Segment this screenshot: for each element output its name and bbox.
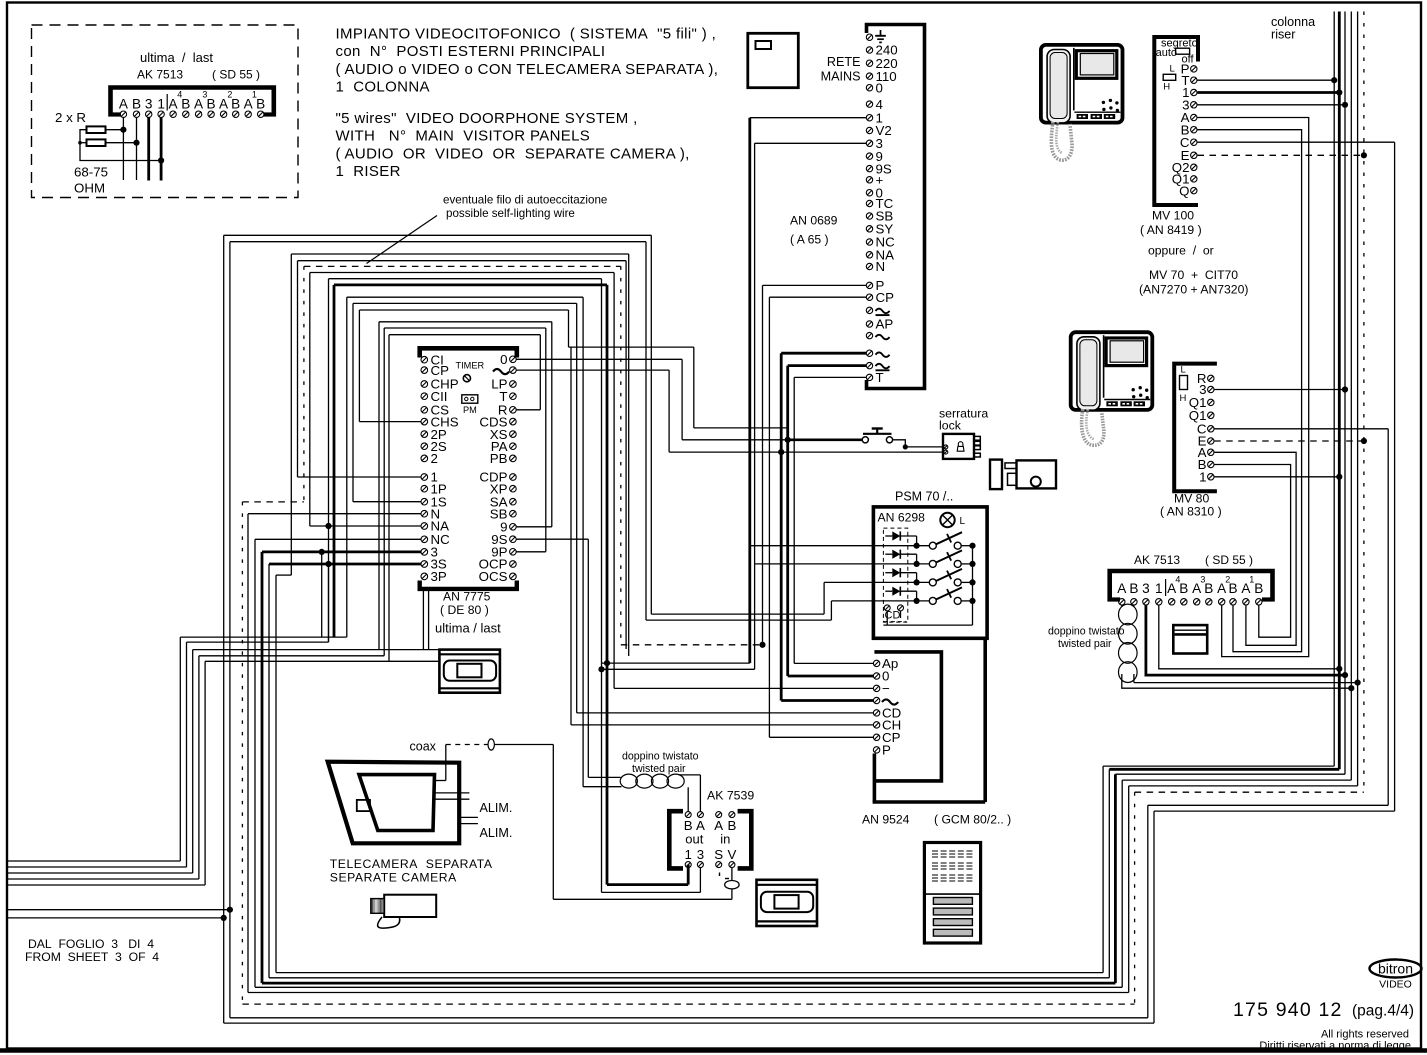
svg-text:3: 3 bbox=[697, 847, 704, 862]
svg-text:AN 6298: AN 6298 bbox=[878, 511, 926, 525]
riser pair down to floor module bbox=[422, 591, 424, 650]
svg-text:AN 0689: AN 0689 bbox=[790, 214, 838, 228]
svg-text:AK 7513: AK 7513 bbox=[1134, 553, 1180, 567]
wire AN0689 T down to AN9524 Ap bbox=[794, 376, 866, 378]
wire column 3 (thick) bbox=[147, 118, 150, 181]
svg-text:possible self-lighting wire: possible self-lighting wire bbox=[446, 207, 575, 220]
wire 0 net from AN7775 bbox=[516, 358, 682, 360]
wire V to coax bbox=[731, 868, 733, 899]
PSM70 rail feeds bbox=[750, 545, 874, 547]
svg-text:con N° POSTI ESTERNI PRINCIP: con N° POSTI ESTERNI PRINCIPALI bbox=[336, 43, 606, 60]
svg-text:oppure / or: oppure / or bbox=[1148, 244, 1214, 258]
AK7539 left bracket bbox=[669, 811, 683, 868]
wire AN0689 ~= down (thick) button net to AN9524 0 bbox=[788, 364, 867, 367]
MV100 wire B bbox=[1198, 130, 1302, 652]
svg-text:AN 7775: AN 7775 bbox=[443, 590, 491, 604]
diode D4 bbox=[892, 587, 900, 596]
svg-text:ultima / last: ultima / last bbox=[140, 50, 213, 65]
CD terminals in PSM70 bbox=[884, 605, 890, 611]
button to lock jog bbox=[893, 440, 944, 447]
loop wire R net bbox=[516, 409, 540, 411]
staircase wire 5 + module link bbox=[205, 660, 440, 662]
svg-text:riser: riser bbox=[1271, 28, 1296, 42]
riser wire 1 (thick) bbox=[1338, 12, 1341, 770]
electric lock bbox=[943, 434, 974, 459]
svg-text:1: 1 bbox=[1199, 470, 1206, 485]
switch S2 bbox=[929, 560, 936, 567]
svg-text:bitron: bitron bbox=[1378, 961, 1413, 977]
wire B to riser bbox=[1134, 682, 1358, 684]
wire 1 to riser bbox=[1159, 605, 1340, 669]
riser wire 3 bbox=[1344, 12, 1346, 775]
svg-text:H: H bbox=[1180, 393, 1187, 404]
AK7513 riser screws bbox=[1119, 599, 1125, 605]
svg-text:ALIM.: ALIM. bbox=[480, 801, 513, 815]
svg-text:( AUDIO OR VIDEO OR SEPARA: ( AUDIO OR VIDEO OR SEPARATE CAMERA ), bbox=[336, 145, 690, 162]
svg-text:CD: CD bbox=[885, 610, 901, 622]
svg-text:B: B bbox=[231, 97, 240, 112]
wire to sheet 3 (bottom-left exit 1) bbox=[8, 917, 224, 919]
svg-text:A: A bbox=[1117, 581, 1127, 596]
svg-text:(AN7270 + AN7320): (AN7270 + AN7320) bbox=[1139, 283, 1248, 297]
distributor module at riser bbox=[1173, 625, 1207, 653]
svg-text:eventuale filo di autoeccitazi: eventuale filo di autoeccitazione bbox=[443, 194, 607, 207]
staircase wire 2 to sheet3 bbox=[328, 564, 330, 642]
svg-text:( GCM 80/2.. ): ( GCM 80/2.. ) bbox=[934, 813, 1011, 827]
svg-text:lock: lock bbox=[939, 419, 962, 433]
terminal block AK7513 top-left: bracket bbox=[111, 88, 274, 117]
buttons bbox=[1104, 399, 1150, 401]
monitor terminal strip MV 100 (AN 8419) bracket bbox=[1154, 37, 1198, 205]
small camera side view bbox=[384, 895, 436, 917]
call rail 4 bbox=[873, 600, 929, 602]
wire ~ net to lock bbox=[516, 369, 669, 371]
diode D1 bbox=[892, 531, 900, 540]
wire resistor top to column A bbox=[106, 129, 124, 131]
MV80 wire 1 bbox=[1214, 476, 1339, 478]
floor distributor module ultima-last bbox=[439, 650, 500, 693]
svg-text:B: B bbox=[207, 97, 216, 112]
screen bbox=[1076, 51, 1117, 79]
bus verticals right of center bbox=[1102, 766, 1104, 973]
svg-text:doppino twistato: doppino twistato bbox=[622, 751, 699, 763]
svg-text:All rights reserved: All rights reserved bbox=[1321, 1029, 1409, 1041]
svg-text:L: L bbox=[1170, 64, 1175, 75]
twisted pair to AK7539 out bbox=[679, 774, 701, 776]
camera floor module bbox=[757, 880, 818, 926]
terminal block AN 7775 (DE 80) top bracket bbox=[420, 348, 517, 357]
svg-text:twisted pair: twisted pair bbox=[632, 763, 686, 775]
resistor R (bottom) bbox=[87, 139, 106, 146]
svg-text:MV 80: MV 80 bbox=[1174, 492, 1209, 506]
junction on column 1 bbox=[158, 157, 164, 163]
wire AN0689 3 down to rail bbox=[755, 142, 867, 144]
svg-text:3: 3 bbox=[202, 90, 207, 100]
svg-text:0: 0 bbox=[876, 80, 883, 95]
riser wire C from MV80 bbox=[1387, 429, 1389, 806]
svg-text:N: N bbox=[876, 259, 886, 274]
svg-text:4: 4 bbox=[1175, 575, 1180, 585]
video monitor handset unit bbox=[1041, 45, 1123, 123]
svg-text:( DE 80 ): ( DE 80 ) bbox=[440, 603, 489, 617]
resistor R (top) bbox=[87, 126, 106, 133]
MV80 wire C bbox=[1214, 428, 1388, 430]
svg-text:AK 7539: AK 7539 bbox=[707, 789, 754, 803]
bottom bus (horizontal runs) bbox=[276, 972, 1103, 974]
AN7775 right terminals bbox=[510, 356, 517, 363]
wire AN0689 1 down (thick) to rail bbox=[750, 117, 866, 119]
svg-text:FROM SHEET 3 OF 4: FROM SHEET 3 OF 4 bbox=[25, 950, 159, 964]
AN7775 bottom bracket bbox=[420, 581, 517, 589]
switch common return bbox=[972, 546, 974, 625]
MV100 wire E (dashed) bbox=[1198, 154, 1364, 156]
svg-text:CP: CP bbox=[876, 290, 895, 305]
svg-text:( AN 8310 ): ( AN 8310 ) bbox=[1160, 505, 1222, 519]
loop wire L3 bbox=[290, 254, 292, 575]
wire resistor left common bbox=[80, 130, 161, 161]
svg-text:1: 1 bbox=[252, 90, 257, 100]
svg-text:68-75: 68-75 bbox=[74, 165, 108, 180]
svg-text:0: 0 bbox=[500, 352, 507, 367]
handset cord bbox=[1082, 409, 1104, 445]
svg-text:2: 2 bbox=[227, 90, 232, 100]
svg-text:V: V bbox=[727, 847, 736, 862]
svg-text:B: B bbox=[256, 97, 265, 112]
svg-text:1: 1 bbox=[1249, 575, 1254, 585]
staircase wire 4 to sheet3 bbox=[199, 655, 384, 657]
lamp L bbox=[940, 513, 954, 527]
svg-text:PSM 70 /..: PSM 70 /.. bbox=[895, 490, 953, 504]
call rail 2 bbox=[873, 563, 929, 565]
svg-text:H: H bbox=[1163, 82, 1170, 93]
speaker holes bbox=[1132, 388, 1135, 391]
svg-text:−: − bbox=[882, 681, 890, 696]
svg-text:P: P bbox=[882, 743, 891, 758]
svg-text:AP: AP bbox=[876, 317, 894, 332]
lock line bbox=[669, 451, 944, 453]
loop wire NA net bbox=[310, 525, 421, 527]
loop wire L1 (riser C net) left outer bbox=[223, 235, 225, 1023]
svg-text:B: B bbox=[1204, 581, 1213, 596]
svg-text:auto: auto bbox=[1156, 47, 1177, 59]
MV100 wire 3 to riser bbox=[1198, 104, 1346, 106]
camera power stubs bbox=[459, 816, 478, 818]
MV100 wire 1 to riser (thick) bbox=[1198, 91, 1340, 94]
svg-text:DAL FOGLIO 3 DI 4: DAL FOGLIO 3 DI 4 bbox=[28, 937, 154, 951]
wire AN0689 P down (dashed dot end) bbox=[763, 284, 867, 286]
handset bbox=[1047, 50, 1070, 123]
wire 3 down-left (thick) bbox=[262, 551, 421, 554]
loop wire to AK7539 terminal 3 bbox=[328, 279, 330, 642]
svg-text:(pag.4/4): (pag.4/4) bbox=[1352, 1003, 1414, 1020]
svg-text:( AN 8419 ): ( AN 8419 ) bbox=[1140, 223, 1202, 237]
lock tabs bbox=[974, 436, 980, 440]
svg-text:4: 4 bbox=[177, 90, 182, 100]
switch S4 bbox=[929, 597, 936, 604]
MV80 wire 3 bbox=[1214, 389, 1345, 391]
svg-text:CP: CP bbox=[431, 363, 450, 378]
svg-text:MV 70 + CIT70: MV 70 + CIT70 bbox=[1149, 268, 1238, 282]
MV80 wire A bbox=[1214, 452, 1296, 645]
bitron VIDEO logo bbox=[1370, 960, 1422, 978]
svg-text:in: in bbox=[720, 832, 730, 847]
handset cord bbox=[1051, 122, 1072, 160]
svg-text:MV 100: MV 100 bbox=[1152, 209, 1194, 223]
svg-text:doppino twistato: doppino twistato bbox=[1048, 626, 1125, 638]
svg-text:WITH N° MAIN VISITOR PANEL: WITH N° MAIN VISITOR PANELS bbox=[336, 128, 591, 145]
door button line bbox=[682, 439, 788, 441]
svg-text:PM: PM bbox=[463, 405, 477, 415]
staircase wire 3 + module link bbox=[193, 649, 441, 651]
PM jumper bbox=[462, 395, 478, 403]
wire 3S down-left (thick) bbox=[269, 563, 421, 566]
svg-text:AN 9524: AN 9524 bbox=[862, 813, 910, 827]
svg-text:MAINS: MAINS bbox=[821, 70, 861, 84]
svg-text:3: 3 bbox=[1142, 581, 1150, 596]
svg-text:AK 7513: AK 7513 bbox=[137, 68, 183, 82]
AN9524 terminals bbox=[873, 660, 879, 666]
lock release accessories bbox=[990, 460, 1002, 490]
wire to sheet 3 (bottom-left exit 2) bbox=[8, 909, 230, 911]
MV100 wire C bbox=[1198, 141, 1395, 143]
svg-text:T: T bbox=[876, 370, 884, 385]
riser wire E (dashed) bbox=[1363, 12, 1365, 793]
handset bbox=[1077, 337, 1100, 410]
wire NC down-left bbox=[255, 538, 421, 540]
dashed E-net left loop bbox=[303, 266, 305, 502]
riser wire T bbox=[1333, 12, 1335, 767]
AN0689 terminals bbox=[866, 34, 872, 40]
monitor terminal strip MV 80 (AN 8310) bracket bbox=[1174, 364, 1217, 492]
svg-text:Q: Q bbox=[1179, 183, 1189, 198]
svg-text:"5 wires" VIDEO DOORPHONE SYS: "5 wires" VIDEO DOORPHONE SYSTEM , bbox=[336, 110, 638, 127]
camera video stubs bbox=[434, 792, 469, 794]
svg-text:out: out bbox=[685, 832, 703, 847]
power supply grille unit bbox=[924, 843, 980, 944]
MV100 wire T to riser bbox=[1198, 79, 1335, 81]
wire column B bbox=[136, 118, 138, 181]
svg-text:( AUDIO o VIDEO o CON TELECAME: ( AUDIO o VIDEO o CON TELECAMERA SEPARAT… bbox=[336, 61, 719, 78]
svg-text:1 COLONNA: 1 COLONNA bbox=[336, 79, 430, 96]
svg-text:B: B bbox=[181, 97, 190, 112]
riser wire C from MV100 bbox=[1394, 142, 1396, 811]
call rail 1 bbox=[873, 545, 929, 547]
wire 9S to twisted pair feed bbox=[516, 538, 588, 540]
PSM 70 box bbox=[873, 507, 987, 638]
MV80 wire E (dashed) bbox=[1214, 440, 1364, 442]
mains switch box RETE MAINS bbox=[748, 33, 799, 87]
svg-text:OCS: OCS bbox=[479, 569, 508, 584]
wire 3 to riser (thick) bbox=[1146, 605, 1345, 675]
loop wire via 297 to twisted pair feed bbox=[346, 297, 348, 637]
MV80 wire B bbox=[1214, 465, 1290, 638]
separate camera trapezoid bbox=[328, 762, 460, 844]
video monitor handset unit bbox=[1071, 332, 1153, 410]
svg-text:B: B bbox=[1179, 581, 1188, 596]
svg-text:1 RISER: 1 RISER bbox=[336, 163, 401, 180]
svg-text:A: A bbox=[119, 97, 129, 112]
svg-text:1: 1 bbox=[157, 97, 165, 112]
svg-text:twisted pair: twisted pair bbox=[1058, 638, 1112, 650]
svg-text:TELECAMERA SEPARATA: TELECAMERA SEPARATA bbox=[330, 857, 493, 871]
horizontal twisted pair bbox=[620, 774, 637, 788]
amplifier AN 9524 box bbox=[874, 652, 941, 781]
door release button bbox=[862, 437, 868, 443]
riser wire B bbox=[1357, 12, 1359, 786]
link wire via 347 to AN0689 area bbox=[569, 346, 694, 348]
S terminal dashes bbox=[719, 873, 721, 877]
switch S1 bbox=[929, 542, 936, 549]
arrow to self-lighting wire bbox=[367, 216, 438, 264]
svg-text:VIDEO: VIDEO bbox=[1379, 979, 1412, 991]
wire AN0689 ~ down (thick) lock net to AN9524 bbox=[781, 352, 866, 355]
AK7539 right bracket bbox=[738, 811, 752, 868]
svg-text:L: L bbox=[1181, 365, 1186, 376]
svg-text:RETE: RETE bbox=[827, 55, 861, 69]
riser wire A bbox=[1350, 12, 1352, 781]
wire AN0689 CP down to AN9524 bbox=[769, 296, 866, 298]
svg-text:B: B bbox=[1254, 581, 1263, 596]
svg-text:TIMER: TIMER bbox=[456, 361, 485, 371]
svg-text:3: 3 bbox=[1200, 575, 1205, 585]
svg-text:( SD 55 ): ( SD 55 ) bbox=[212, 68, 260, 82]
AK7513 riser bracket bbox=[1110, 571, 1273, 602]
svg-text:ultima / last: ultima / last bbox=[435, 621, 501, 636]
diode D3 bbox=[892, 568, 900, 577]
svg-text:3P: 3P bbox=[431, 569, 447, 584]
svg-text:coax: coax bbox=[410, 740, 437, 754]
buttons bbox=[1074, 111, 1120, 113]
loop wire L4 (AN7775 terminal 1) bbox=[297, 261, 299, 477]
wire A to riser bbox=[1122, 674, 1352, 688]
wire CH net vertical bbox=[570, 347, 572, 725]
riser loop-down bus (horizontal runs) bbox=[1103, 765, 1334, 767]
speaker holes bbox=[1102, 101, 1105, 104]
svg-text:1: 1 bbox=[684, 847, 691, 862]
svg-text:2: 2 bbox=[1225, 575, 1230, 585]
diode dashed enclosure bbox=[883, 528, 907, 622]
svg-text:2: 2 bbox=[431, 451, 438, 466]
loop wire 1S to CD bbox=[353, 501, 421, 503]
svg-text:S: S bbox=[714, 847, 723, 862]
svg-text:SEPARATE CAMERA: SEPARATE CAMERA bbox=[330, 870, 457, 884]
loop wire CHS bbox=[359, 421, 421, 423]
MV100 wire A bbox=[1198, 118, 1309, 657]
svg-text:B: B bbox=[1129, 581, 1138, 596]
svg-text:L: L bbox=[960, 516, 966, 527]
svg-text:175 940 12: 175 940 12 bbox=[1233, 999, 1343, 1021]
loop wire thick to AK7539 terminal 1 bbox=[333, 285, 336, 637]
svg-text:ALIM.: ALIM. bbox=[480, 826, 513, 840]
wire N down-left bbox=[248, 513, 421, 515]
terminal block AK7513 (SD 55) top-left demo enclosure (dashed) bbox=[32, 25, 299, 198]
AK7539 terminals bbox=[685, 812, 691, 818]
loop wire 9P net bbox=[516, 551, 546, 553]
svg-text:Diritti riservati a norma di l: Diritti riservati a norma di legge bbox=[1259, 1040, 1411, 1052]
terminal screws bbox=[120, 111, 126, 117]
svg-text:2 x R: 2 x R bbox=[55, 110, 86, 125]
diode D2 bbox=[892, 550, 900, 559]
wire resistor bottom to column B bbox=[106, 142, 137, 144]
twisted pair vertical bbox=[1119, 604, 1138, 625]
svg-text:PB: PB bbox=[490, 451, 508, 466]
power supply unit AN 0689 (A 65) box bbox=[867, 25, 925, 389]
screen bbox=[1106, 338, 1147, 366]
svg-text:IMPIANTO VIDEOCITOFONICO ( SI: IMPIANTO VIDEOCITOFONICO ( SISTEMA "5 fi… bbox=[336, 26, 717, 43]
switch S3 bbox=[929, 579, 936, 586]
svg-text:3: 3 bbox=[145, 97, 153, 112]
wire column A bbox=[122, 118, 124, 181]
wire column 1 (thick) bbox=[160, 118, 163, 181]
svg-text:( SD 55 ): ( SD 55 ) bbox=[1205, 553, 1253, 567]
svg-text:( A 65 ): ( A 65 ) bbox=[790, 233, 829, 247]
staircase wire 1 to sheet3 bbox=[321, 552, 323, 637]
svg-text:B: B bbox=[132, 97, 141, 112]
AN7775 left terminals bbox=[421, 356, 428, 363]
loop wire 9 net bbox=[516, 526, 552, 528]
loop wire L2 left outer bbox=[229, 242, 231, 1018]
call rail 3 bbox=[873, 581, 929, 583]
svg-text:OHM: OHM bbox=[74, 181, 105, 196]
svg-text:1: 1 bbox=[1155, 581, 1163, 596]
